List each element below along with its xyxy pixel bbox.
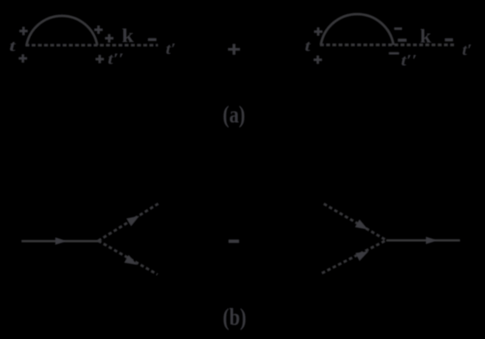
plus right of right vertex (a) left bbox=[105, 34, 113, 42]
svg-text:t′: t′ bbox=[166, 41, 176, 58]
svg-text:t′′: t′′ bbox=[401, 52, 417, 69]
plus above right vertex (a) left bbox=[94, 26, 102, 34]
wire: solid electron line (b) left bbox=[22, 240, 99, 242]
minus right of right vertex (a) right bbox=[398, 39, 407, 42]
wire: dashed propagator line (a) right bbox=[320, 44, 454, 47]
wire: upper dashed line (b) right bbox=[324, 204, 387, 240]
plus below left vertex (a) right bbox=[314, 56, 322, 64]
arrow on lower dashed (b) left bbox=[124, 255, 139, 269]
minus below right vertex (a) right bbox=[389, 52, 399, 54]
svg-text:t′′: t′′ bbox=[108, 51, 124, 68]
wire: solid electron line (b) right bbox=[386, 239, 460, 241]
svg-text:k: k bbox=[420, 27, 432, 48]
svg-text:t: t bbox=[9, 38, 16, 55]
wire: lower dashed line (b) left bbox=[98, 241, 157, 275]
minus before t' (a) left bbox=[148, 38, 157, 41]
arrow on solid line (b) left bbox=[55, 237, 67, 244]
svg-text:k: k bbox=[122, 26, 134, 47]
minus before t' (a) right bbox=[445, 38, 453, 41]
arrow on upper dashed (b) left bbox=[126, 212, 141, 226]
plus above left vertex (a) right bbox=[314, 27, 322, 35]
plus above left vertex (a) left bbox=[19, 27, 27, 35]
plus below right vertex (a) left bbox=[96, 55, 104, 63]
minus above right vertex (a) right bbox=[394, 27, 402, 30]
arrow on upper dashed (b) right bbox=[355, 219, 370, 233]
svg-text:t′: t′ bbox=[462, 42, 472, 59]
svg-text:t: t bbox=[305, 38, 311, 55]
wire: upper dashed line (b) left bbox=[98, 203, 159, 241]
svg-text:(b): (b) bbox=[223, 305, 247, 331]
phonon arc (a) right bbox=[321, 14, 394, 45]
wire: dashed propagator line (a) left bbox=[26, 44, 159, 47]
svg-text:(a): (a) bbox=[223, 103, 245, 129]
arrow on solid line (b) right bbox=[426, 237, 438, 244]
plus below left vertex (a) left bbox=[19, 54, 27, 62]
wire: lower dashed line (b) right bbox=[322, 240, 386, 273]
center plus between (a) diagrams bbox=[228, 44, 240, 55]
phonon arc (a) left bbox=[27, 16, 98, 45]
arrow on lower dashed (b) right bbox=[355, 247, 370, 261]
minus between (b) diagrams bbox=[229, 240, 240, 243]
